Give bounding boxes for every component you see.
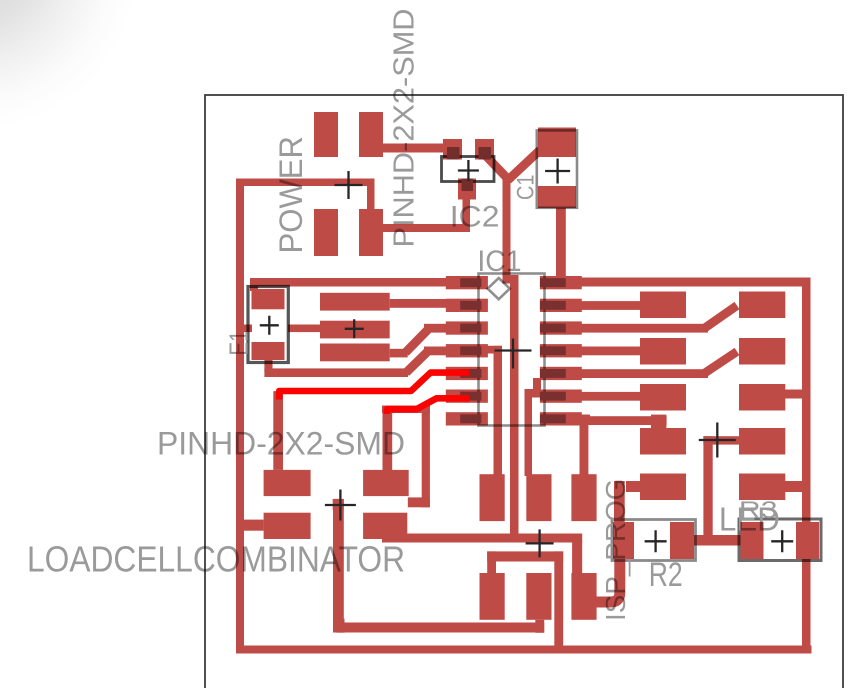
wire VCC top left horizontal [250,278,447,287]
pad P2 ISP header [526,474,551,521]
pad IC1 right row1 [540,276,582,289]
cream overlay IC1 left row2 [460,301,481,310]
pad B5 [739,474,785,501]
pad A1 [640,292,686,319]
wire JP1 pad2 to IC2 [383,144,445,153]
pad IC1 right row3 [540,321,582,334]
wire B3 stub to right bus [785,390,804,399]
wire pin 4 entry [424,347,447,356]
wire diagonal C1 top pad to via junction [508,150,540,180]
cream overlay IC1 left row3 [460,324,481,333]
wire pin 9 right to A3 [581,392,640,401]
wire P4 loop horizontal [487,551,563,561]
wire B4 left horizontal [703,436,739,444]
wire diagonal M3 to pin 3 [406,330,429,353]
wire M1 to IC1 pin 2 [390,299,447,308]
wire diagonal E1 net to pin 4 [406,352,427,373]
wire C1 down to IC1 pin 14 [556,206,566,278]
pad P3 ISP header [571,474,596,521]
pad right IC2 [475,139,494,160]
wire E1 bottom stub [264,360,272,372]
wire A4 top stub [651,415,666,429]
origin cross IC1 [495,339,532,369]
pad IC1 right row4 [540,344,582,357]
IC2 body outline [442,157,495,182]
pad 4 POWER header JP1 [359,209,383,256]
pad IC1 left row7 [446,412,488,425]
wire pin 8 horizontal to A4 [587,416,667,425]
svg-text:PINHD-2X2-SMD: PINHD-2X2-SMD [157,426,405,462]
svg-text:C1: C1 [513,175,540,201]
cream overlay IC1 right row2 [540,301,566,310]
wire right vertical bus [802,278,811,654]
pad IC1 right row5 [540,367,582,380]
wire into pad 4 of POWER header [367,185,375,212]
wire header JP2 center vertical [333,499,344,633]
pad B2 [739,338,785,365]
cream overlay IC2 left pad [447,147,460,160]
wire pin 12 right horizontal [581,324,708,333]
E1 body outline [248,287,288,363]
wire diagonal pin 5 right to B1 [704,306,737,329]
pad 1 POWER header JP1 [314,112,338,157]
pad 3 POWER header JP1 [314,209,338,256]
wire VCC top right horizontal [581,278,802,287]
svg-text:POWER: POWER [273,136,309,254]
pad A5 [640,474,686,501]
svg-text:IC2: IC2 [450,201,500,234]
wire pin 10 right horizontal [581,369,708,378]
cream overlay IC1 left row4 [460,346,481,355]
cream overlay IC1 left row6 [460,392,481,401]
wire pin 11 right to A2 [581,347,640,356]
wire A5 down to R2 [614,481,625,526]
cream overlay IC1 right row3 [540,324,566,333]
wire pin 3 entry [424,324,447,333]
IC1 body outline [479,274,545,426]
wire POWER horizontal [236,179,375,187]
origin cross M2 [345,319,364,338]
pad B4 [739,428,785,455]
pad IC1 left row5 [446,367,488,380]
svg-text:E1: E1 [224,331,254,356]
wire vertical pin4 net to P1 [494,346,503,478]
cream overlay IC1 right row1 [540,278,566,287]
wire bright net LP1 to IC1 pin 5 [279,373,469,400]
pad IC1 left row2 [446,299,488,312]
pad RP2 header JP2 [363,513,407,539]
wire long middle horizontal [382,534,582,543]
wire bright net RP1 to IC1 pin 6 [387,398,470,414]
wire R2 to R3 connector [694,535,741,546]
wire RP1 right vertical [422,406,430,508]
wire E1 to IC1 pin 4 [264,368,408,377]
wire pin 4 jog [486,346,502,354]
pad bottom C1 [538,186,576,208]
pad A4 [640,428,686,455]
pad B1 [739,292,785,319]
wire pin 13 right to A1 [581,301,640,310]
wire lower middle horizontal [336,623,544,633]
wire M2 stub to GND vertical [243,325,252,333]
pad IC1 left row3 [446,321,488,334]
wire vertical to P2 [525,389,533,476]
svg-text:LOADCELLCOMBINATOR: LOADCELLCOMBINATOR [27,539,405,580]
wire LP1 up to signal [273,391,283,470]
pad P5 ISP header [526,573,551,620]
wire pin 10 jog down [533,378,541,394]
pad bottom IC2 [458,179,476,200]
svg-text:PINHD-2X2-SMD: PINHD-2X2-SMD [389,9,421,248]
wire B4 vertical down [703,436,712,542]
pad P1 ISP header [480,474,505,521]
R2 body outline [612,520,696,561]
pad R2 left [613,522,634,559]
wire P6 top stub [572,540,582,573]
pad bottom E1 [252,342,285,360]
wire IC2 to JP1 pad4 [374,224,470,232]
pad R2 right [670,522,694,559]
wire P5 bottom stub [535,620,544,633]
pad P6 ISP header [571,573,596,620]
wire GND bottom horizontal [236,646,812,654]
origin cross R2 [645,530,667,552]
wire P4 loop right vertical to GND [554,551,563,646]
pad R3 left [741,522,764,559]
wire P4 loop vertical [487,551,496,573]
wire IC2 bottom pad down [463,197,471,232]
origin cross IC2 [458,160,479,181]
wire R2 left pad to P6 [596,556,620,602]
cream overlay IC1 left row1 [460,278,481,287]
cream overlay IC2 bottom pad [462,179,474,192]
pad IC1 left row4 [446,344,488,357]
wire A5 left stub [626,481,640,492]
wire IC2 net vertical through IC1 [510,281,519,537]
pad left IC2 [443,139,462,160]
origin cross R3 [771,530,793,552]
wire diagonal IC2 right pad to via junction [486,156,507,178]
pad LP1 header JP2 [264,470,311,496]
wire RP1 up to signal [383,408,393,472]
pad IC1 left row1 [446,276,488,289]
R3 body outline [739,519,821,561]
cream overlay IC1 right row5 [540,369,566,378]
wire M3 right stub [390,349,408,358]
wire IC2 net vertical upper [503,176,511,283]
wire M2 left stub [288,325,320,333]
cream overlay IC1 right row4 [540,346,566,355]
cream overlay IC1 left row5 [460,369,481,378]
pad 2 POWER header JP1 [359,112,383,157]
wire pin 8 vertical to P3 [580,415,589,475]
pad IC1 right row6 [540,390,582,403]
origin cross ISP header [526,529,554,557]
pad M3 [320,344,390,362]
svg-text:R2: R2 [649,556,683,594]
wire under bright trace row6 [382,406,430,414]
wire RP1 right stub [408,497,430,507]
pad B3 [739,384,785,411]
wire B5 stub to right bus [785,481,804,492]
pad IC1 left row6 [446,390,488,403]
cream overlay IC1 left row7 [460,414,481,423]
pad R3 right [796,522,819,559]
origin cross E1 [260,316,279,335]
IC1 pin1 diamond marker [488,278,510,299]
pad top C1 [538,128,576,158]
origin cross LED [699,423,736,458]
pad M1 [320,293,390,311]
wire GND left vertical [236,179,244,654]
svg-text:ISP_PROG: ISP_PROG [600,479,631,622]
pad A2 [640,338,686,365]
pad IC1 right row7 [540,412,582,425]
pad M2 [320,321,390,339]
board outline frame [205,95,843,688]
pad RP1 header JP2 [363,470,409,496]
pad A3 [640,384,686,411]
cream overlay IC2 right pad [479,147,492,160]
pad IC1 right row2 [540,299,582,312]
origin cross C1 [545,159,570,184]
C1 body outline [537,130,577,207]
pad P4 ISP header [480,573,505,620]
pad top E1 [252,289,285,309]
cream overlay IC1 right row7 [540,414,566,423]
svg-text:IC1: IC1 [477,245,521,278]
cream overlay IC1 right row6 [540,392,566,401]
svg-text:R3: R3 [739,497,778,524]
wire pin 8 right stub [581,415,590,424]
origin cross JP2 header [325,490,356,521]
wire LP2 to GND vertical [237,520,264,531]
pad LP2 header JP2 [264,513,311,539]
origin cross JP1 POWER header [335,171,363,199]
wire diagonal pin 10 right to B2 [704,352,737,374]
